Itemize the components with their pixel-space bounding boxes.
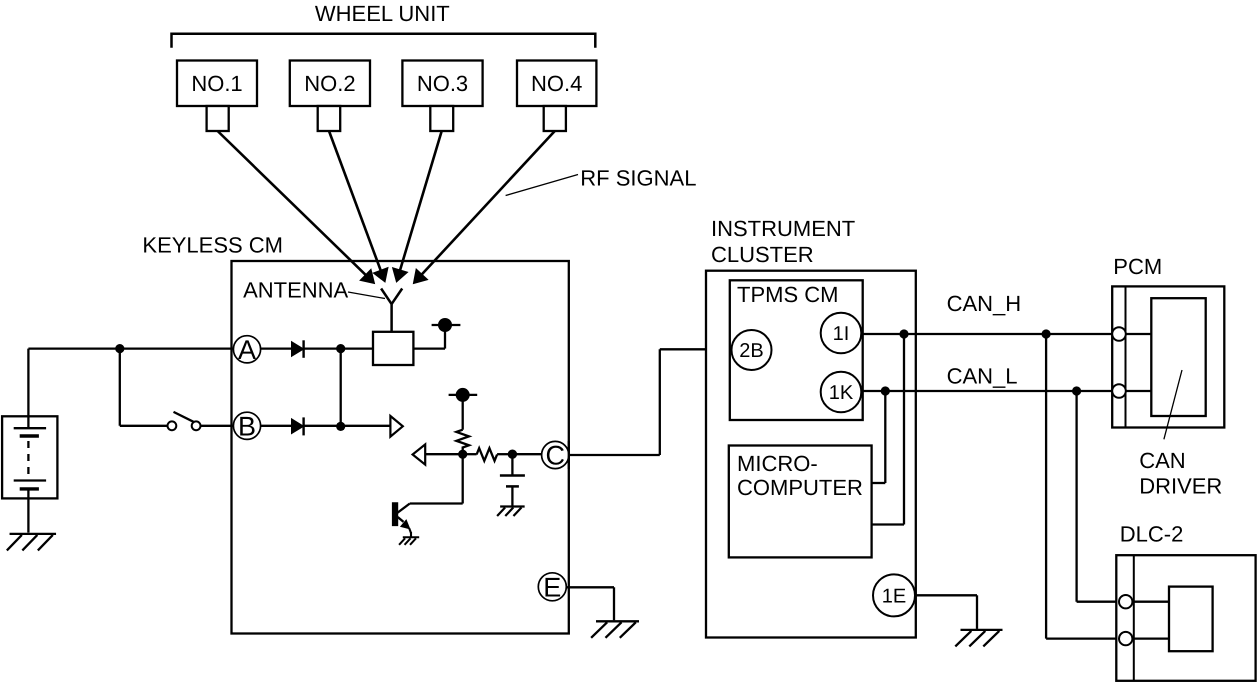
label CAN_H — [947, 291, 1022, 316]
battery bottom lead — [27, 489, 29, 533]
ground (1E) — [955, 630, 1002, 647]
PCM box — [1112, 286, 1224, 427]
wire node to terminal C — [512, 453, 541, 455]
instrument cluster box — [706, 271, 916, 638]
wire switch to terminal B — [201, 425, 234, 427]
svg-text:CAN_L: CAN_L — [947, 363, 1018, 388]
svg-text:DRIVER: DRIVER — [1139, 473, 1222, 498]
wire A to diode — [261, 347, 292, 349]
switch lever — [174, 412, 194, 422]
battery plate long + — [14, 427, 46, 429]
transistor Q1 emitter with arrow — [398, 517, 411, 537]
keyless CM box — [232, 261, 569, 634]
antenna symbol — [381, 289, 402, 332]
wire node A2 to node B2 — [340, 349, 342, 427]
svg-text:NO.3: NO.3 — [417, 71, 468, 96]
svg-text:CAN_H: CAN_H — [947, 291, 1022, 316]
terminal E — [538, 573, 566, 603]
svg-text:B: B — [238, 412, 256, 442]
svg-text:NO.2: NO.2 — [304, 71, 355, 96]
label MICRO- — [737, 451, 818, 476]
label TPMS CM — [737, 282, 838, 307]
resistor R1 (vertical) — [456, 430, 469, 448]
junction node at battery feed — [115, 344, 124, 353]
svg-text:NO.1: NO.1 — [191, 71, 242, 96]
junction node R1 — [458, 450, 467, 459]
pin 1K — [821, 372, 862, 413]
wire terminal C to 2B — [569, 349, 733, 455]
antenna tuner box U1 — [373, 332, 413, 365]
wire E to ground — [566, 587, 614, 620]
label CLUSTER — [711, 242, 814, 267]
wire 1E to ground — [914, 595, 977, 629]
wire node B2 to buffer — [341, 425, 391, 427]
label INSTRUMENT — [711, 216, 855, 241]
transistor Q1 collector lead — [397, 504, 410, 514]
ground (terminal E) — [591, 621, 639, 638]
power symbol (antenna supply) — [432, 318, 461, 332]
svg-text:DLC-2: DLC-2 — [1120, 521, 1184, 546]
RF signal arrow from NO.3 — [393, 131, 442, 282]
switch contact circles — [168, 421, 201, 430]
pin 1I — [821, 313, 862, 354]
svg-text:PCM: PCM — [1113, 254, 1162, 279]
svg-text:C: C — [545, 441, 565, 471]
terminal B — [233, 412, 260, 442]
svg-text:1K: 1K — [829, 382, 854, 404]
svg-text:INSTRUMENT: INSTRUMENT — [711, 216, 855, 241]
wheel unit NO.1 box — [177, 61, 257, 107]
label DLC-2 — [1120, 521, 1184, 546]
svg-text:ANTENNA: ANTENNA — [243, 278, 348, 303]
svg-text:NO.4: NO.4 — [531, 71, 582, 96]
DLC-2 box — [1116, 555, 1255, 681]
TPMS CM box — [730, 280, 863, 420]
junction node B2 — [336, 422, 345, 431]
svg-text:RF SIGNAL: RF SIGNAL — [580, 166, 696, 191]
svg-text:2B: 2B — [739, 340, 763, 362]
wheel unit NO.2 connector tab — [318, 106, 341, 131]
label PCM — [1113, 254, 1162, 279]
wheel unit NO.4 connector tab — [544, 106, 566, 131]
junction on CAN_L (cluster) — [881, 386, 890, 395]
CAN_L wire (1K to PCM) — [861, 390, 1112, 392]
resistor R2 (horizontal) — [477, 448, 498, 461]
DLC-2 inner box — [1169, 587, 1213, 652]
RF signal arrow from NO.4 — [413, 131, 554, 284]
wheel unit NO.3 connector tab — [430, 106, 453, 131]
ground (capacitor) — [497, 507, 525, 517]
wire PCM pin L to CAN driver — [1126, 390, 1152, 392]
battery top lead — [27, 349, 29, 429]
micro-computer box — [729, 446, 872, 558]
wire CAN_L branch to DLC-2 — [1077, 391, 1119, 602]
wire R1 to node — [462, 447, 464, 455]
svg-text:MICRO-: MICRO- — [737, 451, 818, 476]
label DRIVER — [1139, 473, 1222, 498]
pin 2B — [732, 330, 772, 370]
svg-text:CLUSTER: CLUSTER — [711, 242, 814, 267]
label WHEEL UNIT — [315, 1, 450, 26]
transistor Q1 base bar — [392, 503, 397, 526]
bracket over wheel units — [172, 34, 596, 48]
wire junction to switch — [120, 349, 168, 426]
wire CAN_H branch to DLC-2 — [1046, 334, 1119, 639]
wire junction to micro-computer (L) — [872, 391, 886, 483]
wire PCM pin H to CAN driver — [1126, 333, 1152, 335]
pin 1E — [873, 574, 915, 616]
label CAN — [1139, 448, 1185, 473]
svg-text:KEYLESS CM: KEYLESS CM — [142, 233, 283, 258]
ground (battery) — [7, 534, 56, 551]
diode D1 — [292, 340, 304, 358]
wire diode to node — [304, 347, 373, 349]
svg-text:TPMS CM: TPMS CM — [737, 282, 838, 307]
DLC-2 connector strip — [1133, 555, 1135, 681]
DLC-2 pin circle upper — [1119, 595, 1132, 608]
CAN driver box — [1151, 298, 1205, 416]
svg-text:COMPUTER: COMPUTER — [737, 475, 863, 500]
RF signal arrow from NO.1 — [218, 131, 375, 284]
PCM pin circle CAN_L — [1112, 384, 1126, 398]
wire diode to node B2 — [304, 425, 341, 427]
wheel unit NO.4 box — [517, 61, 596, 107]
label RF SIGNAL — [580, 166, 696, 191]
label CAN_L — [947, 363, 1018, 388]
battery box — [2, 416, 57, 498]
junction on CAN_H (cluster) — [899, 329, 908, 338]
wire node to resistor R2 — [463, 453, 477, 455]
wire antenna box to power — [413, 332, 445, 349]
buffer amp (open triangle right) — [390, 416, 402, 437]
capacitor C1 — [500, 476, 525, 506]
battery plate short 2 — [20, 487, 39, 490]
power symbol 2 — [449, 388, 478, 402]
svg-text:CAN: CAN — [1139, 448, 1185, 473]
label ANTENNA — [243, 278, 348, 303]
PCM connector strip — [1125, 286, 1127, 427]
wire junction to micro-computer (H) — [872, 334, 904, 525]
ground (transistor emitter) — [399, 537, 419, 545]
svg-text:1I: 1I — [833, 323, 850, 345]
svg-text:WHEEL UNIT: WHEEL UNIT — [315, 1, 450, 26]
open triangle output (left) — [413, 444, 459, 464]
battery plate short - — [20, 434, 39, 437]
wire R2 to node C — [497, 453, 512, 455]
wire power2 to resistor R1 — [462, 395, 464, 430]
wire DLC-2 lower pin to inner box — [1132, 637, 1169, 639]
junction on CAN_L (to DLC-2) — [1072, 386, 1081, 395]
wheel unit NO.2 box — [290, 61, 370, 107]
junction node A2 — [336, 344, 345, 353]
label KEYLESS CM — [142, 233, 283, 258]
wire DLC-2 upper pin to inner box — [1132, 601, 1169, 603]
RF signal arrow from NO.2 — [329, 131, 388, 282]
svg-text:A: A — [238, 335, 256, 365]
svg-text:E: E — [543, 573, 561, 603]
label COMPUTER — [737, 475, 863, 500]
svg-text:1E: 1E — [882, 586, 906, 608]
DLC-2 pin circle lower — [1119, 632, 1132, 645]
battery B+ wire — [28, 347, 233, 349]
battery plate long 2 — [14, 479, 46, 481]
diode D2 — [292, 417, 304, 435]
capacitor C1 lead — [511, 454, 513, 474]
CAN_H wire (1I to PCM) — [861, 333, 1112, 335]
wire B to diode — [261, 425, 292, 427]
junction node R2 — [508, 450, 517, 459]
CAN DRIVER pointer line — [1164, 370, 1182, 439]
wire node R1 to transistor — [410, 454, 463, 503]
terminal A — [233, 335, 260, 365]
ANTENNA pointer line — [348, 292, 385, 299]
wheel unit NO.1 connector tab — [207, 106, 229, 131]
junction on CAN_H (to DLC-2) — [1042, 329, 1051, 338]
RF SIGNAL pointer line — [506, 175, 578, 196]
PCM pin circle CAN_H — [1112, 327, 1126, 341]
wheel unit NO.3 box — [402, 61, 482, 107]
battery dashed middle — [27, 441, 29, 477]
terminal C — [542, 441, 569, 471]
